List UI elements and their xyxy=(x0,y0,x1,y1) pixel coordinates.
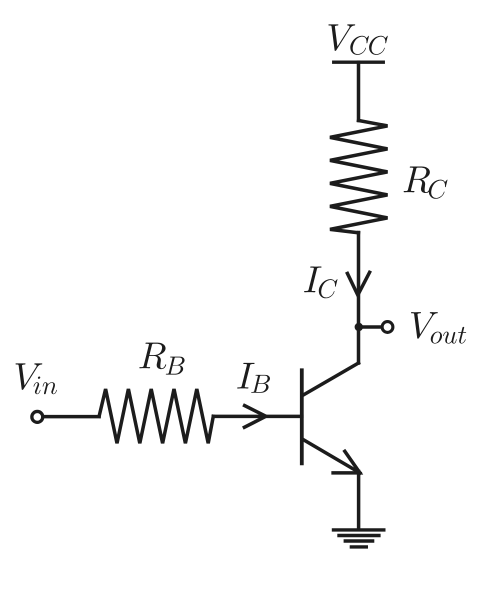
label Vcc xyxy=(328,24,387,55)
current arrow IB xyxy=(244,406,266,428)
wire RC to collector corner xyxy=(357,233,361,364)
Vcc supply bar xyxy=(334,61,384,64)
terminal Vin open circle xyxy=(32,411,43,422)
resistor RC xyxy=(330,121,388,233)
node Vout junction dot xyxy=(355,323,363,331)
wire node to Vout terminal xyxy=(359,325,382,329)
wire emitter to ground xyxy=(357,472,361,529)
wire RB to base xyxy=(213,415,301,419)
label RB xyxy=(139,343,184,375)
label IB xyxy=(237,363,270,393)
transistor Q1 base bar xyxy=(300,370,304,463)
wire Vin to RB xyxy=(43,415,99,419)
label IC xyxy=(304,267,337,299)
transistor Q1 emitter arrowhead xyxy=(333,451,360,473)
label Vout xyxy=(411,312,466,343)
label Vin xyxy=(16,363,57,394)
transistor Q1 emitter xyxy=(304,440,360,473)
resistor RB xyxy=(99,389,213,443)
terminal Vout open circle xyxy=(382,322,393,333)
wire Vcc to RC xyxy=(357,62,361,120)
wire collector diagonal xyxy=(304,363,359,395)
current arrow IC xyxy=(347,272,369,295)
ground xyxy=(334,530,384,547)
label RC xyxy=(404,167,448,199)
